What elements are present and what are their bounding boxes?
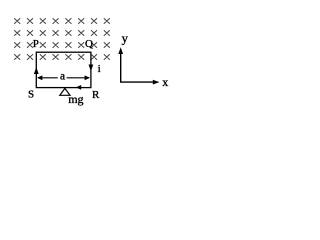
width dimension arrow a (double headed)	[38, 77, 58, 79]
svg-text:i: i	[98, 63, 101, 75]
conducting loop PQRS	[36, 52, 91, 87]
svg-text:R: R	[92, 89, 100, 101]
current arrow up on side SP	[34, 67, 39, 74]
svg-text:y: y	[122, 32, 129, 46]
svg-text:mg: mg	[68, 92, 83, 106]
current arrow left on side RS	[76, 85, 81, 90]
x-axis	[120, 81, 156, 83]
svg-text:Q: Q	[85, 38, 93, 50]
svg-text:S: S	[28, 89, 34, 101]
svg-text:a: a	[60, 71, 65, 83]
current arrow down on side QR	[89, 65, 94, 72]
y-axis	[120, 51, 122, 83]
magnetic field B into page (grid of x marks)	[14, 18, 110, 60]
svg-text:P: P	[33, 38, 39, 50]
fulcrum pivot triangle	[60, 88, 70, 95]
svg-text:x: x	[162, 75, 168, 89]
